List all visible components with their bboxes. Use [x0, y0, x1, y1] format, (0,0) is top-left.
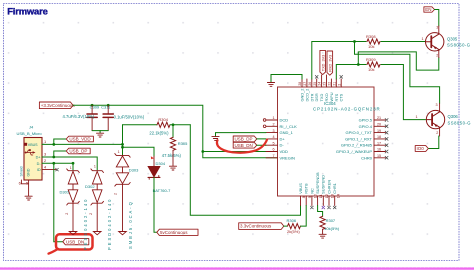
svg-text:21: 21 — [332, 82, 336, 86]
svg-text:D303: D303 — [129, 168, 139, 173]
svg-text:3: 3 — [44, 152, 46, 157]
junction D304 branch — [121, 146, 124, 149]
wire to VDD pin6 — [203, 151, 278, 153]
svg-text:Shield: Shield — [20, 167, 24, 177]
svg-text:1: 1 — [118, 150, 120, 154]
wire GND_1 to ground — [216, 133, 267, 137]
svg-text:TXD_3V3: TXD_3V3 — [321, 55, 325, 71]
wire D+ from J4 pin3 to D302 — [42, 157, 97, 170]
svg-text:8: 8 — [302, 196, 306, 198]
svg-text:CTS: CTS — [339, 93, 344, 101]
svg-text:USB_DN: USB_DN — [235, 143, 253, 148]
svg-text:2k(5%): 2k(5%) — [287, 229, 300, 234]
svg-text:SS8050-G: SS8050-G — [448, 120, 472, 125]
wire D- from J4 pin2 to D301 — [42, 163, 73, 170]
junction D- / D301 — [72, 162, 75, 165]
junction RTS/R309 — [357, 63, 360, 66]
svg-text:GPIO.1_/_RXT: GPIO.1_/_RXT — [345, 136, 372, 141]
IC pin 15 CHR0 (NC) — [374, 157, 386, 159]
wire DTR to Q306 collector — [355, 42, 440, 104]
IC pin 4 D+ — [266, 138, 278, 140]
svg-text:Firmware: Firmware — [7, 5, 47, 16]
svg-text:10k: 10k — [368, 44, 374, 49]
wire R309 to Q306 base — [381, 65, 426, 120]
IC pin 17 GPIO.2_/_RS485 (NC) — [374, 144, 386, 146]
svg-text:2: 2 — [337, 84, 341, 86]
svg-text:D304: D304 — [156, 161, 166, 166]
svg-text:4.7uF/6.3V(10%): 4.7uF/6.3V(10%) — [63, 114, 95, 119]
svg-text:22.1k(5%): 22.1k(5%) — [149, 130, 169, 135]
wire RTS riser — [336, 65, 358, 80]
svg-text:15: 15 — [377, 154, 381, 158]
svg-text:D-: D- — [280, 143, 285, 148]
junction C311 — [107, 104, 110, 107]
svg-text:3: 3 — [436, 25, 438, 29]
IC pin 21 RTS (top) — [335, 79, 337, 87]
wire D302 to gnd — [96, 203, 98, 231]
svg-text:1: 1 — [416, 115, 418, 119]
IC IC304 CP2102N-A02-GQFN28 body — [278, 87, 375, 196]
wire to VREGIN pin7 — [203, 152, 278, 158]
annotation: red swoosh under USB_DN — [217, 140, 267, 153]
svg-text:RSTB: RSTB — [304, 183, 309, 194]
svg-text:2: 2 — [65, 213, 69, 215]
resistor R307 path from SUSPENDB — [318, 206, 323, 217]
IC pin 22 WPU (top) — [330, 79, 332, 87]
ground (R305) — [169, 166, 176, 170]
svg-text:D302: D302 — [85, 184, 95, 189]
svg-text:NC: NC — [309, 188, 314, 194]
svg-text:IO0: IO0 — [417, 146, 425, 151]
svg-text:2: 2 — [113, 193, 117, 195]
IC pin 25 DSR (top) — [316, 79, 318, 87]
global label 5vContinuous — [157, 229, 198, 235]
junction VDD/VREGIN — [201, 150, 204, 153]
svg-text:SMBJ5.0CA-Q: SMBJ5.0CA-Q — [128, 200, 133, 249]
diode D303 SMBJ5.0CA — [115, 154, 130, 158]
svg-text:BAT760-7: BAT760-7 — [153, 188, 171, 193]
junction R305 — [172, 123, 175, 126]
wire D304 to 5v label — [154, 177, 157, 232]
IC pin 14 CHR1 (bottom) — [334, 196, 336, 206]
junction VBUS / D303+R304 branch — [121, 143, 124, 146]
svg-text:EN: EN — [425, 7, 431, 12]
svg-text:1: 1 — [94, 165, 96, 169]
IC pin 11 SUSPENDB (bottom) — [317, 196, 319, 206]
ground (arrow) D303 — [119, 232, 127, 235]
svg-text:GPIO.4: GPIO.4 — [359, 124, 373, 129]
IC pin 19 GPIO.0_/_TXT (NC) — [374, 132, 386, 134]
junction DTR/R308 — [353, 40, 356, 43]
svg-text:D+: D+ — [280, 136, 286, 141]
IC pin 1 DCD — [266, 119, 278, 121]
svg-text:28: 28 — [298, 82, 302, 86]
junction VBUS / USB_VDD label — [52, 143, 55, 146]
svg-text:26: 26 — [308, 82, 312, 86]
IC pin 12 SUSPEND (bottom) — [322, 196, 324, 206]
wire VBUS-sense to IC pin8 — [190, 125, 300, 215]
svg-text:SUSPEND: SUSPEND — [321, 175, 326, 194]
IC pin 7 VREGIN — [266, 157, 278, 159]
svg-text:VDD: VDD — [280, 149, 289, 154]
svg-text:DCD: DCD — [280, 118, 289, 123]
wire D- down to USB_DN label — [54, 163, 63, 241]
global label RXD (vertical) — [327, 51, 333, 75]
global label USB_VDD — [66, 136, 93, 142]
svg-text:USB_DN: USB_DN — [66, 239, 84, 244]
wire R305 to gnd — [172, 150, 174, 166]
junction D- / USB_DN branch — [52, 162, 55, 165]
svg-text:2: 2 — [89, 213, 93, 215]
wire D303 to gnd — [122, 184, 124, 231]
wire R306 to RSTB pin9 — [301, 206, 307, 227]
svg-text:3: 3 — [436, 103, 438, 107]
IC pin 24 TXD (top) — [321, 75, 323, 87]
svg-text:9: 9 — [308, 196, 312, 198]
svg-text:5: 5 — [272, 141, 274, 145]
svg-text:2: 2 — [44, 158, 46, 163]
IC pin 10 NC (bottom) — [311, 196, 313, 206]
ground (IC GND_2) — [267, 83, 274, 87]
wire D301 to gnd — [72, 203, 74, 231]
svg-text:27: 27 — [303, 82, 307, 86]
svg-text:GND: GND — [27, 168, 31, 176]
annotation: red hand-drawn box around USB_DN — [56, 234, 93, 249]
wire RTS to Q305 emitter — [358, 52, 439, 70]
wire VBUS to R304 — [123, 124, 158, 126]
wire 3.3v rail — [73, 105, 203, 151]
svg-text:17: 17 — [377, 141, 381, 145]
svg-text:5: 5 — [26, 180, 28, 185]
svg-text:6: 6 — [19, 180, 21, 185]
svg-text:19: 19 — [377, 129, 381, 133]
svg-text:11: 11 — [319, 194, 323, 198]
resistor R309 — [367, 62, 380, 67]
IC pin 18 GPIO.1_/_RXT (NC) — [374, 138, 386, 140]
svg-text:14: 14 — [336, 194, 340, 198]
svg-text:CP2102N-A02-GQFN28R: CP2102N-A02-GQFN28R — [313, 106, 381, 111]
svg-text:USB_VDD: USB_VDD — [69, 137, 91, 142]
global label EN — [424, 7, 435, 12]
svg-text:USB_DP: USB_DP — [235, 137, 253, 142]
global label +3.3vContinuous — [39, 102, 73, 109]
svg-text:16: 16 — [377, 148, 381, 152]
capacitor C309 — [91, 105, 93, 113]
global label IO0 — [415, 146, 428, 152]
J4 shield/gnd pins to ground — [21, 180, 28, 196]
IC pin 8 VBUS (bottom) — [300, 196, 302, 206]
svg-text:SUSPENDB: SUSPENDB — [315, 172, 320, 194]
svg-text:VBUS: VBUS — [28, 143, 38, 147]
global label USB_DP — [66, 148, 90, 154]
IC pin 21 GPIO.5 (NC) — [374, 119, 386, 121]
svg-text:21: 21 — [377, 116, 381, 120]
svg-text:24: 24 — [318, 82, 322, 86]
svg-text:1: 1 — [44, 139, 46, 144]
IC pin 23 RXD (top) — [326, 75, 328, 87]
IC pin 27 DCD_2 (top) — [306, 79, 308, 87]
svg-text:ID: ID — [37, 168, 41, 172]
IC pin 9 RSTB (bottom) — [305, 196, 307, 206]
svg-text:CHR1: CHR1 — [332, 183, 337, 194]
svg-text:GPIO.2_/_RS485: GPIO.2_/_RS485 — [341, 143, 373, 148]
wire to D304 anode — [123, 147, 155, 156]
svg-text:18: 18 — [377, 135, 381, 139]
svg-text:RI_/_CLK: RI_/_CLK — [280, 124, 298, 129]
wire VBUS vertical branch — [122, 125, 124, 156]
svg-text:10k(5%): 10k(5%) — [324, 226, 340, 231]
ground (arrow) D301 — [69, 232, 77, 235]
wire R308 to Q305 base — [381, 41, 426, 43]
wire Q306 emitter to IO0 — [428, 136, 439, 149]
junction D+ / USB_DP label — [52, 156, 55, 159]
svg-text:7: 7 — [272, 154, 274, 158]
global label USB_DP at IC — [233, 136, 257, 142]
svg-text:GPIO.0_/_TXT: GPIO.0_/_TXT — [346, 130, 373, 135]
IC pin 2 RI_/_CLK — [266, 125, 278, 127]
svg-text:CHR0: CHR0 — [361, 155, 373, 160]
svg-text:D+: D+ — [36, 156, 42, 160]
svg-text:Q306: Q306 — [448, 114, 459, 119]
IC pin 5 D- — [266, 144, 278, 146]
svg-text:GPIO.5: GPIO.5 — [359, 118, 373, 123]
svg-text:VBUS: VBUS — [298, 183, 303, 194]
resistor R305 — [172, 125, 174, 138]
svg-text:D301: D301 — [60, 190, 70, 195]
global label TXD (vertical) — [320, 50, 326, 74]
svg-text:1: 1 — [422, 37, 424, 41]
ground (IC GND_1) — [212, 137, 219, 141]
svg-text:R307: R307 — [326, 218, 336, 223]
pin 4 ID no-connect — [42, 169, 56, 171]
svg-text:47.5k(5%): 47.5k(5%) — [162, 153, 182, 158]
svg-text:20: 20 — [377, 123, 381, 127]
IC pin 13 CHREN (bottom) — [328, 196, 330, 206]
global label USB_DN at IC — [233, 142, 257, 148]
svg-text:5vContinuous: 5vContinuous — [160, 230, 188, 235]
svg-text:GND_1: GND_1 — [280, 130, 294, 135]
IC pin 16 GPIO.3_/_WAKEUP (NC) — [374, 151, 386, 153]
diode D302 PESD0402-140 — [91, 169, 104, 173]
wire R304 to node — [170, 124, 190, 126]
svg-text:Q305: Q305 — [447, 36, 458, 41]
wire VBUS from J4 pin1 — [42, 143, 123, 145]
IC pin 2 CTS (top) — [340, 79, 342, 87]
svg-text:23: 23 — [323, 82, 327, 86]
global label USB_DN (circled) — [63, 239, 89, 245]
svg-text:R306: R306 — [287, 218, 297, 223]
resistor R304 — [157, 122, 170, 127]
IC pin 26 DTR (top) — [311, 79, 313, 87]
IC pin 6 VDD — [266, 151, 278, 153]
svg-text:PESD0402-140: PESD0402-140 — [107, 198, 112, 250]
svg-text:R308: R308 — [366, 34, 376, 39]
wire cap commons — [92, 130, 108, 132]
svg-text:1: 1 — [70, 166, 72, 170]
svg-text:CHREN: CHREN — [326, 180, 331, 194]
svg-text:USB_B_Micro: USB_B_Micro — [17, 131, 43, 136]
svg-text:USB_DP: USB_DP — [69, 149, 87, 154]
svg-text:R304: R304 — [158, 117, 168, 122]
svg-text:2: 2 — [272, 123, 274, 127]
wire GND_2 to ground — [271, 75, 302, 83]
IC pin 28 GND_2 (top) — [301, 79, 303, 87]
diode D304 BAT760-7 — [153, 156, 155, 166]
resistor R308 — [367, 39, 380, 44]
svg-text:RXD_3V3: RXD_3V3 — [328, 55, 332, 72]
global label 3.3vContinuous — [239, 223, 284, 230]
resistor R306 — [288, 224, 301, 229]
svg-text:25: 25 — [313, 82, 317, 86]
svg-text:3: 3 — [272, 129, 274, 133]
svg-text:+3.3vContinuous: +3.3vContinuous — [41, 103, 76, 108]
wire DTR riser — [312, 42, 355, 80]
svg-text:GPIO.3_/_WAKEUP: GPIO.3_/_WAKEUP — [336, 149, 372, 154]
ground (R307) — [319, 234, 326, 238]
svg-text:R309: R309 — [366, 57, 376, 62]
svg-text:2: 2 — [436, 131, 438, 135]
svg-text:C309: C309 — [90, 105, 100, 110]
wire label stub — [54, 151, 66, 157]
IC pin 3 GND_1 — [266, 132, 278, 134]
ground (J4 shield) — [25, 196, 32, 200]
svg-text:1: 1 — [272, 116, 274, 120]
svg-text:4: 4 — [272, 135, 274, 139]
svg-text:6: 6 — [272, 148, 274, 152]
ground (arrow) D302 — [93, 232, 101, 235]
transistor Q305 SS8050 — [426, 33, 444, 51]
IC pin 20 GPIO.4 (NC) — [374, 125, 386, 127]
svg-text:0.1uF/50V(10%): 0.1uF/50V(10%) — [114, 115, 145, 120]
svg-text:3.3vContinuous: 3.3vContinuous — [240, 224, 272, 229]
wire EN to Q305 collector — [435, 10, 439, 27]
svg-text:C311: C311 — [101, 105, 111, 110]
svg-text:SS8050-G: SS8050-G — [447, 43, 471, 48]
transistor Q306 SS8050 — [426, 110, 444, 128]
svg-text:22: 22 — [328, 82, 332, 86]
svg-text:10k: 10k — [368, 67, 374, 72]
ground (caps) — [97, 133, 104, 137]
diode D301 PESD0402-140 — [67, 169, 80, 173]
junction C309 — [91, 104, 94, 107]
adjacent sheet edge (magenta dashed) — [0, 267, 474, 269]
label stub — [54, 139, 66, 144]
svg-text:2: 2 — [436, 53, 438, 57]
svg-text:VREGIN: VREGIN — [280, 155, 295, 160]
svg-text:PESD0402-140: PESD0402-140 — [83, 198, 88, 250]
svg-text:R305: R305 — [178, 141, 188, 146]
capacitor C311 — [107, 105, 109, 113]
